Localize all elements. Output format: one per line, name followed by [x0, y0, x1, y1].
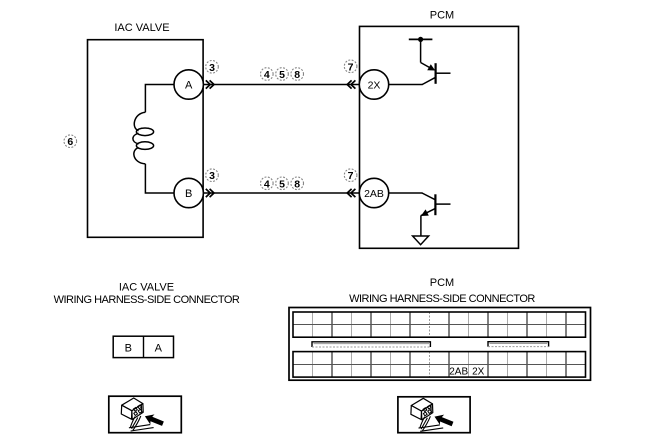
wire (coil bottom lead)	[145, 164, 174, 193]
PCM connector lower pin block	[293, 352, 586, 378]
callout 6	[64, 135, 77, 148]
callout 4 (bottom wire)	[261, 177, 274, 190]
connector arrows at 2AB (in)	[347, 189, 355, 197]
svg-text:A: A	[185, 80, 193, 92]
svg-text:WIRING HARNESS-SIDE CONNECTOR: WIRING HARNESS-SIDE CONNECTOR	[54, 294, 240, 306]
svg-text:2AB: 2AB	[449, 367, 468, 378]
callout 8 (top wire)	[291, 68, 304, 81]
svg-text:IAC VALVE: IAC VALVE	[119, 282, 174, 294]
svg-text:8: 8	[294, 178, 300, 190]
svg-text:7: 7	[348, 61, 354, 73]
PCM connector outer box	[289, 308, 591, 381]
svg-text:B: B	[125, 343, 132, 355]
connector pictogram (left)	[121, 398, 165, 431]
transistor Q1 (PNP, drives 2X)	[389, 39, 451, 84]
power rail stub (top transistor supply)	[409, 38, 433, 40]
svg-text:2X: 2X	[368, 80, 381, 92]
connector arrows at B (out)	[206, 189, 214, 197]
svg-text:8: 8	[294, 69, 300, 81]
pin 2AB	[359, 178, 388, 207]
connector arrows at A (out)	[206, 80, 214, 88]
svg-text:4: 4	[264, 69, 270, 81]
inductor L1 (IAC valve coil)	[133, 112, 154, 164]
ground	[413, 236, 429, 245]
callout 7 (bottom wire)	[344, 169, 357, 182]
PCM connector slot (left)	[312, 342, 430, 347]
PCM connector slot (right)	[488, 342, 549, 347]
callout 3 (top wire)	[206, 61, 219, 74]
svg-text:PCM: PCM	[430, 277, 454, 289]
svg-text:B: B	[185, 188, 192, 200]
svg-text:5: 5	[279, 178, 285, 190]
PCM connector upper pin block	[293, 312, 586, 337]
svg-text:IAC VALVE: IAC VALVE	[114, 22, 169, 34]
svg-text:3: 3	[209, 62, 215, 74]
svg-text:6: 6	[67, 136, 73, 148]
connector pictogram (right)	[411, 398, 455, 431]
PCM box	[360, 26, 519, 248]
transistor Q2 (NPN, drives 2AB)	[389, 193, 451, 236]
IAC valve box	[88, 40, 204, 238]
svg-text:WIRING HARNESS-SIDE CONNECTOR: WIRING HARNESS-SIDE CONNECTOR	[349, 293, 535, 305]
wire (coil top lead)	[145, 85, 174, 113]
svg-text:2X: 2X	[472, 367, 485, 378]
IAC valve connector (B / A cells)	[113, 336, 173, 357]
callout 5 (top wire)	[276, 68, 289, 81]
wire A to 2X	[203, 84, 359, 86]
svg-text:3: 3	[209, 170, 215, 182]
terminal B	[174, 178, 203, 207]
IAC valve connector pictogram box	[109, 396, 182, 433]
svg-text:4: 4	[264, 178, 270, 190]
callout 5 (bottom wire)	[276, 177, 289, 190]
PCM connector pictogram box	[398, 397, 470, 433]
svg-text:7: 7	[348, 170, 354, 182]
svg-text:5: 5	[279, 69, 285, 81]
svg-text:A: A	[155, 343, 163, 355]
pin 2X	[359, 70, 388, 99]
svg-text:PCM: PCM	[430, 10, 454, 22]
wire B to 2AB	[203, 192, 359, 194]
callout 3 (bottom wire)	[206, 169, 219, 182]
connector arrows at 2X (in)	[347, 80, 355, 88]
terminal A	[174, 70, 203, 99]
callout 4 (top wire)	[261, 68, 274, 81]
callout 7 (top wire)	[344, 60, 357, 73]
callout 8 (bottom wire)	[291, 177, 304, 190]
svg-text:2AB: 2AB	[364, 188, 384, 200]
junction dot	[418, 37, 423, 42]
